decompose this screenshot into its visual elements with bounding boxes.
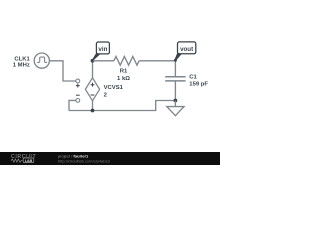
VCVS1 diamond bbox=[85, 78, 99, 101]
wire VCVS top lead to node vin bbox=[92, 61, 94, 78]
plus sign inside diamond bbox=[91, 83, 95, 87]
plus sign control bbox=[76, 84, 80, 88]
wire clock output to VCVS + control terminal bbox=[49, 61, 75, 81]
svg-text:http://circuitlab.com/c/p4abs3: http://circuitlab.com/c/p4abs3 bbox=[58, 158, 111, 163]
wire node vin to resistor bbox=[93, 60, 114, 62]
svg-text:1 kΩ: 1 kΩ bbox=[117, 76, 130, 82]
wire bottom rail bbox=[69, 101, 175, 111]
svg-text:vout: vout bbox=[180, 46, 193, 53]
svg-text:1 MHz: 1 MHz bbox=[13, 62, 30, 68]
minus sign control bbox=[76, 94, 80, 96]
wire VCVS bottom lead to rail bbox=[92, 101, 94, 111]
capacitor C1 bbox=[165, 77, 185, 81]
clock source CLK1 bbox=[34, 53, 49, 68]
wire vout corner down to capacitor bbox=[174, 61, 176, 77]
resistor R1 bbox=[114, 56, 139, 65]
svg-text:CIRCUIT: CIRCUIT bbox=[11, 154, 36, 160]
watermark bar bbox=[0, 152, 220, 165]
ground bbox=[167, 101, 184, 116]
wire capacitor bottom lead bbox=[174, 81, 176, 101]
minus sign inside diamond bbox=[91, 94, 95, 96]
junction dot VCVS bottom bbox=[91, 109, 95, 113]
terminal - input of VCVS1 bbox=[76, 99, 80, 103]
svg-text:LAB: LAB bbox=[25, 159, 33, 163]
terminal + input of VCVS1 bbox=[76, 79, 80, 83]
node vin junction dot bbox=[91, 59, 95, 63]
watermark logo LAB box bbox=[23, 158, 34, 163]
svg-text:C1: C1 bbox=[189, 75, 197, 81]
node flag vout bbox=[174, 42, 196, 62]
watermark logo squiggle bbox=[11, 159, 23, 162]
wire resistor to vout corner bbox=[139, 60, 175, 62]
svg-text:R1: R1 bbox=[120, 69, 128, 75]
node flag vin bbox=[92, 42, 110, 61]
svg-text:159 pF: 159 pF bbox=[189, 81, 208, 87]
junction dot ground node bbox=[174, 99, 178, 103]
svg-text:vin: vin bbox=[98, 46, 107, 53]
svg-text:VCVS1: VCVS1 bbox=[104, 85, 124, 91]
wire - control terminal to bottom rail bbox=[69, 100, 76, 110]
